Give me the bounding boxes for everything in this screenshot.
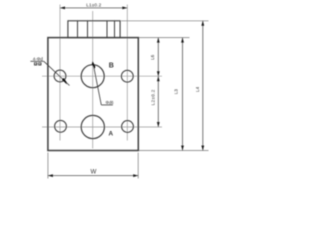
svg-text:Φd6: Φd6 (106, 100, 115, 105)
svg-text:L1±0.2: L1±0.2 (86, 3, 101, 8)
svg-text:B: B (109, 63, 114, 70)
svg-text:L2±0.2: L2±0.2 (151, 89, 156, 105)
svg-text:A: A (109, 131, 114, 138)
svg-text:L3: L3 (174, 89, 179, 95)
svg-text:4-Φd: 4-Φd (33, 56, 44, 61)
svg-text:W: W (90, 168, 96, 175)
svg-text:L6: L6 (150, 54, 155, 60)
svg-text:L4: L4 (195, 86, 200, 92)
